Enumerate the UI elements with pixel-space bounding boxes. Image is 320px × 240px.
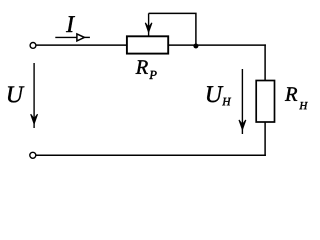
voltage arrow U_H head (239, 120, 246, 130)
wire top-right (R_P to corner) (168, 44, 266, 46)
label I (66, 16, 75, 32)
terminal top-left (30, 43, 36, 49)
voltage arrow U head (31, 114, 38, 124)
wire top-left (terminal to R_P) (36, 44, 127, 46)
wire right vertical upper (264, 44, 266, 80)
wire right vertical lower (264, 122, 266, 156)
voltage arrow U stem (33, 63, 35, 128)
label U (8, 86, 24, 102)
label R_P (136, 60, 148, 73)
current arrow I line (55, 36, 76, 38)
label R_H subscript (299, 102, 308, 109)
potentiometer R_P (127, 36, 168, 53)
voltage arrow U_H stem (241, 69, 243, 134)
wire wiper feedback (up and over to junction) (149, 13, 196, 45)
label U_H (207, 86, 223, 102)
label U_H subscript (222, 98, 231, 106)
terminal bottom-left (30, 152, 36, 158)
junction node dot (193, 44, 198, 49)
current arrow I open head (77, 34, 85, 41)
wire bottom (36, 154, 266, 156)
resistor R_H (256, 81, 274, 123)
current arrow I line after head (85, 36, 90, 38)
label R_H (285, 87, 297, 100)
wiper arrow stem (148, 13, 150, 36)
wiper arrowhead (145, 23, 152, 32)
label R_P subscript (149, 71, 156, 79)
